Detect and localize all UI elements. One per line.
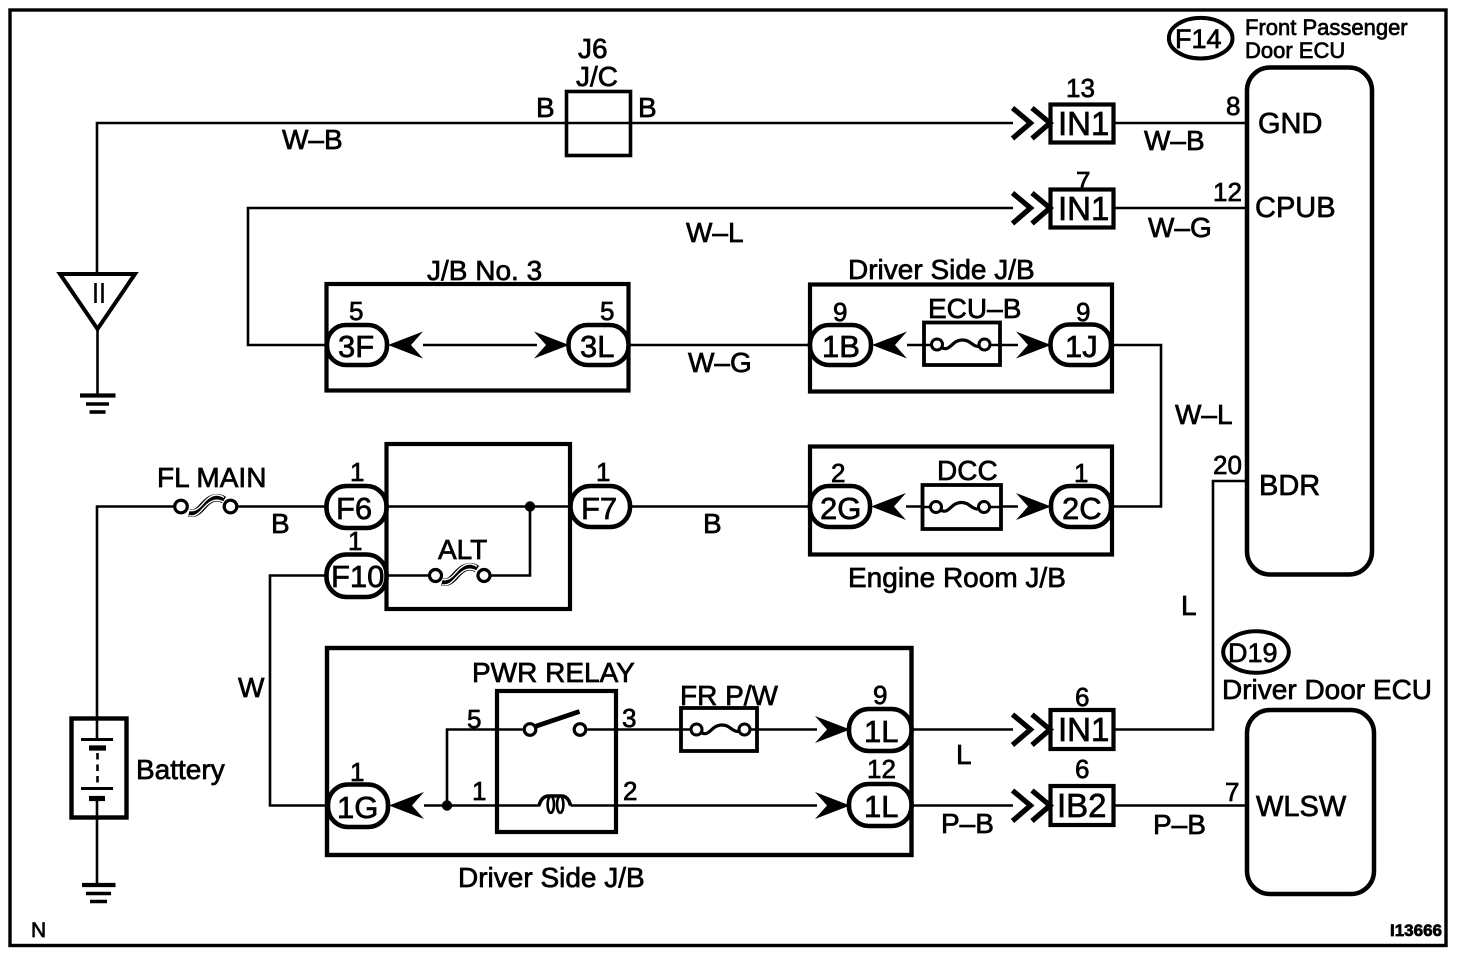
arrow at 1G [389, 792, 424, 819]
svg-text:5: 5 [349, 296, 363, 326]
svg-text:12: 12 [1213, 177, 1242, 207]
arrow at 2G [871, 493, 906, 520]
connector F10 [327, 555, 387, 598]
svg-text:W–G: W–G [1148, 212, 1212, 243]
battery [72, 719, 127, 818]
svg-text:2C: 2C [1062, 491, 1102, 526]
svg-text:N: N [31, 919, 46, 942]
svg-text:Front Passenger: Front Passenger [1245, 15, 1408, 40]
connector 1L upper [849, 709, 912, 751]
wire L IN1 to ECU pin 20 [1114, 481, 1247, 730]
svg-text:1: 1 [472, 776, 486, 806]
wire F6 to F7 [387, 505, 572, 508]
wire fuse to 1J [1000, 344, 1018, 346]
connector 3F [327, 325, 387, 365]
svg-text:1L: 1L [864, 789, 898, 824]
svg-text:Driver Side J/B: Driver Side J/B [458, 862, 645, 893]
junction box J/B No. 3 [327, 284, 629, 391]
svg-text:F10: F10 [331, 559, 384, 594]
arrow at 3F [388, 332, 423, 359]
junction box Engine Room J/B [810, 447, 1112, 555]
wire W-L from J/B No.3 to IN1 (CPUB net) [248, 208, 1013, 345]
fuse ECU-B [924, 323, 1000, 366]
wire battery to ground [96, 818, 99, 885]
svg-text:7: 7 [1225, 777, 1239, 807]
arrow at 2C [1016, 493, 1051, 520]
wire W from F10 down to 1G [270, 576, 328, 806]
connector IN1 (pin 7) [1051, 190, 1114, 228]
svg-text:D19: D19 [1228, 638, 1278, 668]
svg-text:P–B: P–B [1153, 809, 1206, 840]
wire P-B IB2 to ECU pin 7 [1114, 804, 1248, 807]
svg-text:F14: F14 [1175, 24, 1222, 54]
svg-text:BDR: BDR [1259, 470, 1320, 502]
connector IN1 (pin 6) [1051, 710, 1114, 749]
svg-text:F7: F7 [581, 491, 617, 526]
svg-text:Door ECU: Door ECU [1245, 38, 1345, 63]
wire B F7 to 2G [630, 505, 810, 508]
connector IN1 (pin 13) [1051, 105, 1114, 143]
arrow into 1L lower [815, 792, 850, 819]
svg-text:L: L [1181, 590, 1197, 621]
wire 2G to DCC fuse [906, 505, 923, 507]
svg-text:6: 6 [1075, 754, 1089, 784]
svg-text:WLSW: WLSW [1256, 791, 1347, 823]
arrow into 1L upper [815, 716, 850, 743]
svg-text:1: 1 [348, 526, 362, 556]
svg-text:W–B: W–B [1144, 125, 1205, 156]
junction block J6 J/C [567, 92, 631, 156]
svg-text:FL MAIN: FL MAIN [157, 462, 266, 493]
arrow at 1B [872, 332, 907, 359]
connector 2G [810, 486, 870, 527]
connector 1B [810, 325, 871, 365]
svg-text:GND: GND [1258, 108, 1322, 140]
wire 1G to relay coil [424, 804, 540, 807]
svg-text:6: 6 [1075, 682, 1089, 712]
wire W-B from ground to IN1 (GND net) [97, 123, 1013, 274]
svg-text:1: 1 [596, 457, 610, 487]
chevron arrows into IB2 [1013, 791, 1051, 822]
relay switch blade [535, 712, 580, 727]
chevron arrows into IN1 (GND wire) [1013, 108, 1051, 139]
svg-text:W–G: W–G [688, 347, 752, 378]
wire B battery to F6 with FL MAIN [97, 507, 327, 719]
svg-text:12: 12 [867, 754, 896, 784]
svg-text:13: 13 [1066, 73, 1095, 103]
junction dot [525, 501, 535, 511]
svg-text:20: 20 [1213, 450, 1242, 480]
svg-text:1: 1 [350, 457, 364, 487]
ground symbol triangle II [60, 274, 135, 329]
svg-text:Battery: Battery [136, 754, 225, 785]
connector 1J [1051, 325, 1112, 366]
wire W-L 1J to 2C [1111, 345, 1161, 507]
svg-text:Driver Door ECU: Driver Door ECU [1222, 674, 1432, 705]
svg-text:IN1: IN1 [1058, 711, 1109, 748]
connector oval D19 [1223, 631, 1289, 673]
svg-text:1L: 1L [864, 714, 898, 749]
wire L 1L to IN1 [912, 728, 1014, 731]
fuse DCC [923, 485, 1002, 529]
ECU Driver Door rounded box [1247, 710, 1374, 894]
svg-text:W–B: W–B [282, 124, 343, 155]
svg-text:J6: J6 [578, 33, 608, 64]
svg-text:L: L [956, 739, 972, 770]
svg-text:Engine Room J/B: Engine Room J/B [848, 562, 1066, 593]
wire from triangle to ground [96, 329, 99, 394]
svg-text:W–L: W–L [686, 217, 744, 248]
svg-text:I13666: I13666 [1390, 921, 1442, 940]
svg-text:1: 1 [1074, 458, 1088, 488]
svg-text:2: 2 [623, 776, 637, 806]
arrow at 3L [534, 332, 569, 359]
svg-text:F6: F6 [336, 491, 372, 526]
svg-text:9: 9 [873, 680, 887, 710]
ground hatch [80, 393, 116, 397]
ground under battery [82, 883, 116, 887]
wire fuse to 2C [1001, 505, 1018, 507]
svg-text:9: 9 [1076, 297, 1090, 327]
connector 1L lower [849, 784, 912, 826]
wire to relay pin 5 [447, 730, 523, 806]
connector F6 [327, 486, 387, 528]
arrow at 1J [1016, 332, 1051, 359]
connector 2C [1051, 486, 1111, 527]
svg-text:IB2: IB2 [1057, 787, 1107, 824]
svg-text:3L: 3L [580, 329, 614, 364]
ECU Front Passenger Door rounded box [1247, 68, 1372, 575]
connector IB2 (pin 6) [1051, 786, 1114, 825]
svg-text:J/B No. 3: J/B No. 3 [427, 255, 542, 286]
wire 3F to 3L [423, 344, 537, 346]
svg-text:DCC: DCC [937, 455, 998, 486]
svg-text:8: 8 [1226, 91, 1240, 121]
svg-text:2: 2 [831, 458, 845, 488]
svg-text:PWR RELAY: PWR RELAY [472, 657, 635, 688]
svg-text:B: B [536, 92, 555, 123]
svg-text:ALT: ALT [438, 534, 487, 565]
svg-text:1: 1 [350, 757, 364, 787]
relay switch contacts [524, 724, 536, 736]
connector 1G [328, 785, 388, 828]
svg-text:5: 5 [600, 296, 614, 326]
connector oval F14 [1169, 18, 1233, 59]
svg-text:W: W [238, 672, 265, 703]
svg-text:B: B [703, 508, 722, 539]
svg-text:J/C: J/C [576, 61, 618, 92]
relay coil [539, 796, 571, 806]
wire W-B from IN1 to ECU pin 8 [1114, 122, 1247, 125]
svg-text:ECU–B: ECU–B [928, 293, 1021, 324]
junction box ALT (unnamed) [387, 444, 571, 609]
wire coil to 1L lower [571, 804, 818, 807]
svg-text:3F: 3F [338, 329, 374, 364]
connector 3L [569, 325, 629, 365]
wire W-G 3L to 1B [629, 344, 811, 347]
svg-text:IN1: IN1 [1058, 105, 1109, 142]
junction box Driver Side J/B (upper) [810, 285, 1112, 392]
svg-text:7: 7 [1076, 166, 1090, 196]
svg-text:9: 9 [833, 297, 847, 327]
svg-text:2G: 2G [820, 491, 861, 526]
svg-text:W–L: W–L [1175, 399, 1233, 430]
svg-text:B: B [271, 508, 290, 539]
chevron arrows into IN1 (CPUB wire) [1013, 193, 1051, 224]
wire relay pin 3 to FR P/W [588, 728, 682, 731]
chevron arrows into IN1 (L wire) [1013, 715, 1051, 746]
svg-text:CPUB: CPUB [1255, 192, 1336, 224]
junction dot at pin1 [442, 800, 452, 810]
svg-text:1G: 1G [337, 790, 378, 825]
wire 1B to ECU-B fuse [907, 344, 924, 346]
svg-text:1J: 1J [1065, 329, 1098, 364]
svg-text:Driver Side J/B: Driver Side J/B [848, 254, 1035, 285]
wire FR P/W to 1L [757, 728, 817, 731]
wire ALT fuse to junction [490, 509, 530, 576]
svg-text:P–B: P–B [941, 808, 994, 839]
wire W-G from IN1 to ECU pin 12 [1114, 207, 1247, 210]
svg-text:B: B [638, 92, 657, 123]
junction box Driver Side J/B (lower) [327, 648, 912, 855]
svg-text:1B: 1B [822, 329, 860, 364]
connector F7 [571, 486, 631, 527]
wire P-B 1L to IB2 [912, 804, 1014, 807]
